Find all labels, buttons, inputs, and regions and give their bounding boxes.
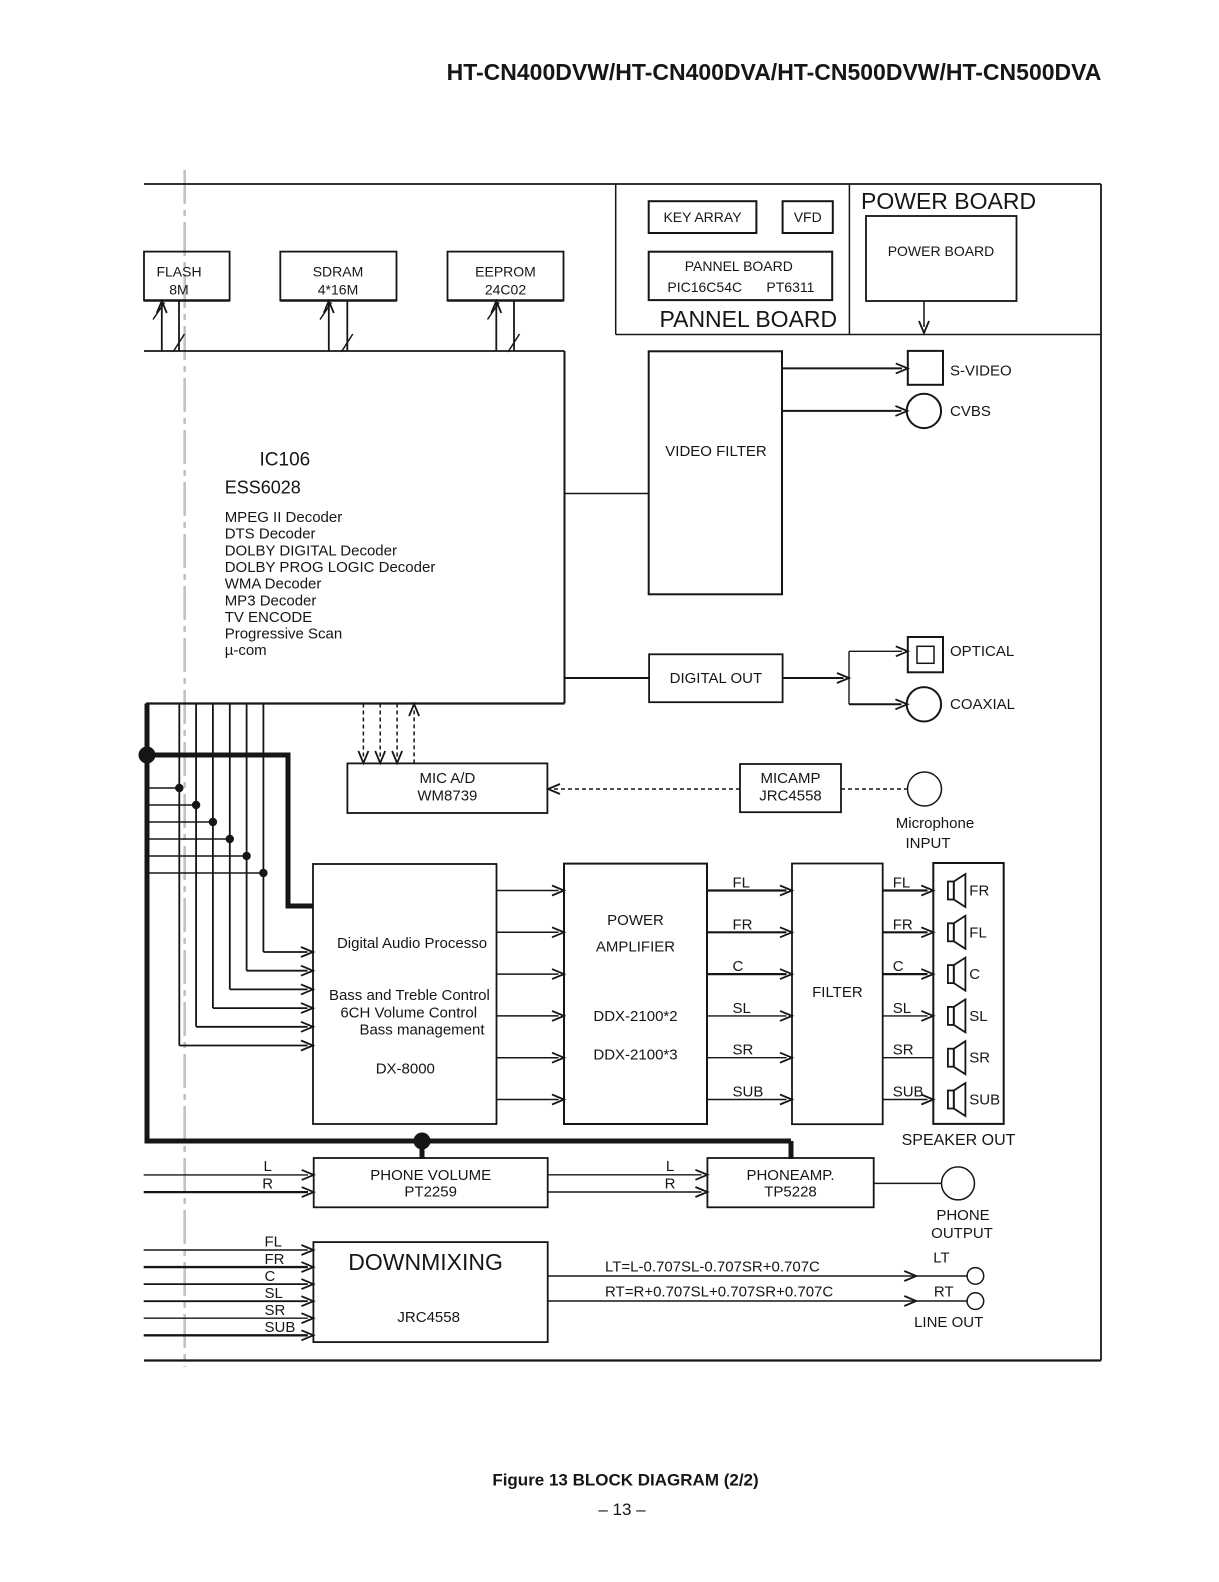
wire IC106 to digital out <box>565 677 650 679</box>
svg-text:VFD: VFD <box>794 209 822 225</box>
svg-text:PT6311: PT6311 <box>766 279 814 295</box>
svg-text:DDX-2100*2: DDX-2100*2 <box>593 1008 677 1025</box>
svg-text:FR: FR <box>733 916 753 933</box>
svg-text:8M: 8M <box>169 282 188 298</box>
svg-text:SDRAM: SDRAM <box>313 264 364 280</box>
LT connector <box>967 1268 984 1285</box>
svg-text:FR: FR <box>969 883 989 900</box>
video filter block <box>649 351 782 594</box>
svg-text:L: L <box>666 1158 674 1175</box>
node bus junction top <box>139 747 156 764</box>
svg-text:Progressive Scan: Progressive Scan <box>225 626 343 643</box>
svg-text:WM8739: WM8739 <box>417 788 477 805</box>
svg-text:POWER BOARD: POWER BOARD <box>861 188 1036 214</box>
wire power amp to filter SR <box>707 1057 787 1059</box>
node channel 3 junction <box>209 818 217 826</box>
wire power amp to filter FR <box>707 931 787 933</box>
svg-text:FL: FL <box>733 875 751 892</box>
frame bottom border <box>144 1359 1101 1361</box>
wire EEPROM bus up arrow <box>495 303 497 351</box>
svg-text:MP3 Decoder: MP3 Decoder <box>225 592 317 609</box>
COAXIAL connector <box>907 687 941 721</box>
wire R into phone volume <box>144 1191 308 1193</box>
power amplifier DDX-2100 block <box>564 864 707 1124</box>
digital audio processor DX-8000 block <box>313 864 497 1124</box>
wire stub to channel 4 <box>145 838 230 840</box>
wire RT line out <box>548 1300 967 1302</box>
wire C into downmixing <box>144 1283 308 1285</box>
wire audio channel 1 from IC106 to DAP <box>178 704 180 1046</box>
wire stub to channel 6 <box>145 872 263 874</box>
wire DAP to power amp 1 <box>497 890 559 892</box>
svg-text:DX-8000: DX-8000 <box>376 1061 435 1078</box>
svg-text:TV ENCODE: TV ENCODE <box>225 609 313 626</box>
svg-text:CVBS: CVBS <box>950 403 991 420</box>
IC106 ESS6028 decoder block <box>144 350 565 352</box>
wire dashed IC106 to MIC A/D 1 <box>362 704 364 758</box>
wire stub to channel 5 <box>145 855 247 857</box>
fold mark dash-dot line <box>183 170 186 1367</box>
svg-text:SR: SR <box>969 1050 990 1067</box>
wire SDRAM bus up arrow <box>328 303 330 351</box>
svg-text:SL: SL <box>893 1000 911 1017</box>
wire DAP to power amp 2 <box>497 931 559 933</box>
wire FLASH bus down <box>178 301 180 352</box>
speaker out block <box>933 863 1003 1124</box>
svg-text:SUB: SUB <box>733 1084 764 1101</box>
node bus junction phone volume <box>414 1133 431 1150</box>
wire DAP to power amp 4 <box>497 1015 559 1017</box>
svg-text:PHONE: PHONE <box>936 1207 989 1224</box>
svg-text:FR: FR <box>265 1251 285 1268</box>
RT connector <box>967 1293 984 1310</box>
svg-text:OPTICAL: OPTICAL <box>950 643 1014 660</box>
svg-text:– 13 –: – 13 – <box>598 1500 646 1519</box>
svg-text:COAXIAL: COAXIAL <box>950 696 1015 713</box>
wire audio channel 2 from IC106 to DAP <box>195 704 197 1027</box>
wire SL into downmixing <box>144 1300 308 1302</box>
thick bus vertical <box>145 704 150 1142</box>
wire stub to channel 1 <box>145 787 179 789</box>
wire DAP to power amp 6 <box>497 1099 559 1101</box>
svg-text:MICAMP: MICAMP <box>761 770 821 787</box>
svg-text:PHONE VOLUME: PHONE VOLUME <box>370 1167 491 1184</box>
svg-text:S-VIDEO: S-VIDEO <box>950 362 1012 379</box>
frame right border <box>1100 184 1102 1361</box>
svg-text:PT2259: PT2259 <box>404 1184 457 1201</box>
svg-text:SL: SL <box>265 1285 283 1302</box>
svg-text:SUB: SUB <box>265 1319 296 1336</box>
svg-text:IC106: IC106 <box>260 450 311 471</box>
svg-text:Figure 13 BLOCK DIAGRAM (2/2): Figure 13 BLOCK DIAGRAM (2/2) <box>492 1471 758 1490</box>
frame top border <box>144 183 1101 185</box>
wire dashed IC106 to MIC A/D 3 <box>396 704 398 758</box>
svg-text:6CH Volume Control: 6CH Volume Control <box>340 1005 477 1022</box>
svg-text:PANNEL BOARD: PANNEL BOARD <box>659 306 837 332</box>
wire dashed IC106 to MIC A/D 2 <box>379 704 381 758</box>
svg-text:PHONEAMP.: PHONEAMP. <box>746 1167 834 1184</box>
speaker icon SR <box>948 1041 966 1074</box>
svg-text:C: C <box>733 958 744 975</box>
speaker icon SUB <box>948 1083 966 1116</box>
svg-text:Microphone: Microphone <box>896 815 974 832</box>
wire filter to speaker SUB <box>883 1099 928 1101</box>
CVBS connector <box>907 394 941 428</box>
svg-text:JRC4558: JRC4558 <box>759 788 822 805</box>
node channel 5 junction <box>242 852 250 860</box>
wire DAP to power amp 3 <box>497 973 559 975</box>
node channel 6 junction <box>259 869 267 877</box>
svg-text:AMPLIFIER: AMPLIFIER <box>596 939 675 956</box>
svg-text:JRC4558: JRC4558 <box>397 1309 460 1326</box>
wire coaxial arrow <box>849 703 902 705</box>
svg-text:HT-CN400DVW/HT-CN400DVA/HT-CN5: HT-CN400DVW/HT-CN400DVA/HT-CN500DVW/HT-C… <box>447 59 1102 85</box>
svg-text:SUB: SUB <box>969 1092 1000 1109</box>
svg-text:WMA Decoder: WMA Decoder <box>225 576 322 593</box>
wire EEPROM bus down <box>513 301 515 352</box>
svg-text:POWER: POWER <box>607 912 664 929</box>
wire FL into downmixing <box>144 1249 308 1251</box>
svg-text:KEY ARRAY: KEY ARRAY <box>663 209 742 225</box>
wire power amp to filter SL <box>707 1015 787 1017</box>
speaker icon FR <box>948 874 966 907</box>
wire digital out split <box>848 651 850 704</box>
wire filter to speaker SL <box>883 1015 928 1017</box>
svg-text:DIGITAL OUT: DIGITAL OUT <box>670 670 763 687</box>
wire bus drop to phoneamp <box>789 1141 794 1159</box>
svg-text:PANNEL BOARD: PANNEL BOARD <box>685 258 793 274</box>
wire optical arrow <box>849 650 902 652</box>
svg-text:24C02: 24C02 <box>485 282 526 298</box>
filter block <box>792 864 883 1125</box>
memory FLASH 8M <box>144 252 230 301</box>
svg-text:INPUT: INPUT <box>906 835 951 852</box>
wire DAP to power amp 5 <box>497 1057 559 1059</box>
wire R phone volume to phoneamp <box>548 1191 702 1193</box>
wire power amp to filter SUB <box>707 1099 787 1101</box>
svg-text:SL: SL <box>733 1000 751 1017</box>
wire audio channel 4 from IC106 to DAP <box>229 704 231 990</box>
svg-text:OUTPUT: OUTPUT <box>931 1225 993 1242</box>
svg-text:LT: LT <box>933 1250 949 1267</box>
svg-text:R: R <box>665 1176 676 1193</box>
digital out block <box>649 654 783 702</box>
svg-text:SL: SL <box>969 1008 987 1025</box>
phone volume PT2259 block <box>314 1158 548 1207</box>
phoneamp TP5228 block <box>707 1158 873 1207</box>
svg-text:Digital Audio Processo: Digital Audio Processo <box>337 935 487 952</box>
wire bus stub to phone volume <box>420 1141 425 1159</box>
node channel 1 junction <box>175 784 183 792</box>
svg-text:FL: FL <box>893 875 911 892</box>
wire stub to channel 3 <box>145 821 213 823</box>
wire CVBS arrow <box>782 410 902 412</box>
svg-text:SR: SR <box>265 1302 286 1319</box>
svg-text:TP5228: TP5228 <box>764 1184 817 1201</box>
svg-text:RT=R+0.707SL+0.707SR+0.707C: RT=R+0.707SL+0.707SR+0.707C <box>605 1284 833 1301</box>
svg-text:DOLBY PROG LOGIC Decoder: DOLBY PROG LOGIC Decoder <box>225 559 436 576</box>
svg-text:SPEAKER OUT: SPEAKER OUT <box>902 1132 1016 1149</box>
svg-text:POWER BOARD: POWER BOARD <box>888 243 995 259</box>
svg-text:FLASH: FLASH <box>156 264 201 280</box>
VFD block <box>783 201 833 233</box>
wire L phone volume to phoneamp <box>548 1174 702 1176</box>
wire audio channel 5 from IC106 to DAP <box>246 704 248 971</box>
wire dashed MICAMP to MIC A/D <box>554 788 740 790</box>
svg-text:DDX-2100*3: DDX-2100*3 <box>593 1047 677 1064</box>
phone output connector <box>942 1167 975 1200</box>
svg-text:PIC16C54C: PIC16C54C <box>667 279 742 295</box>
downmixing JRC4558 block <box>313 1242 547 1342</box>
wire power amp to filter FL <box>707 889 787 891</box>
S-VIDEO connector <box>908 351 943 385</box>
wire SR into downmixing <box>144 1317 308 1319</box>
speaker icon SL <box>948 999 966 1032</box>
svg-text:SR: SR <box>733 1042 754 1059</box>
svg-text:4*16M: 4*16M <box>318 282 358 298</box>
wire digital out arrow <box>783 677 844 679</box>
svg-text:FL: FL <box>265 1234 283 1251</box>
svg-text:SR: SR <box>893 1042 914 1059</box>
wire SDRAM bus down <box>346 301 348 352</box>
memory SDRAM 4*16M <box>280 252 396 301</box>
svg-text:Bass and Treble Control: Bass and Treble Control <box>329 987 490 1004</box>
wire filter to speaker FR <box>883 931 928 933</box>
svg-text:C: C <box>969 966 980 983</box>
wire filter to speaker FL <box>883 889 928 891</box>
key array block <box>649 201 757 233</box>
wire dashed MIC A/D to IC106 up arrow <box>413 710 415 763</box>
svg-text:EEPROM: EEPROM <box>475 264 536 280</box>
speaker icon C <box>948 958 966 991</box>
svg-text:L: L <box>264 1158 272 1175</box>
MICAMP JRC4558 block <box>740 764 841 812</box>
memory EEPROM 24C02 <box>448 252 564 301</box>
thick bus horizontal <box>145 1139 792 1144</box>
wire power board down arrow <box>923 301 925 327</box>
wire phoneamp to phone output <box>874 1182 942 1184</box>
svg-text:MPEG II Decoder: MPEG II Decoder <box>225 509 343 526</box>
wire audio channel 3 from IC106 to DAP <box>212 704 214 1009</box>
pannel board section box <box>615 184 617 335</box>
svg-text:MIC A/D: MIC A/D <box>419 770 475 787</box>
wire S-VIDEO arrow <box>782 367 902 369</box>
svg-text:RT: RT <box>934 1284 954 1301</box>
microphone input connector <box>908 772 942 806</box>
wire filter to speaker SR <box>883 1057 934 1059</box>
wire stub to channel 2 <box>145 804 196 806</box>
svg-text:DOLBY DIGITAL Decoder: DOLBY DIGITAL Decoder <box>225 542 397 559</box>
svg-text:FL: FL <box>969 924 987 941</box>
wire SUB into downmixing <box>144 1334 308 1336</box>
svg-text:FR: FR <box>893 916 913 933</box>
wire power amp to filter C <box>707 973 787 975</box>
svg-text:DTS Decoder: DTS Decoder <box>225 526 316 543</box>
svg-text:LT=L-0.707SL-0.707SR+0.707C: LT=L-0.707SL-0.707SR+0.707C <box>605 1259 820 1276</box>
node channel 4 junction <box>226 835 234 843</box>
svg-text:C: C <box>893 958 904 975</box>
node channel 2 junction <box>192 801 200 809</box>
wire audio channel 6 from IC106 to DAP <box>262 704 264 953</box>
svg-text:FILTER: FILTER <box>812 984 863 1001</box>
svg-text:C: C <box>265 1268 276 1285</box>
svg-text:LINE OUT: LINE OUT <box>914 1314 983 1331</box>
speaker icon FL <box>948 916 966 949</box>
OPTICAL connector <box>908 637 943 672</box>
power board block <box>866 216 1017 301</box>
svg-text:R: R <box>262 1176 273 1193</box>
wire L into phone volume <box>144 1174 308 1176</box>
svg-text:SUB: SUB <box>893 1084 924 1101</box>
svg-text:µ-com: µ-com <box>225 642 267 659</box>
wire FLASH bus up arrow <box>161 303 163 351</box>
pannel board inner block PIC16C54C PT6311 <box>649 252 833 300</box>
wire FR into downmixing <box>144 1266 308 1268</box>
wire dashed microphone to MICAMP <box>841 788 907 790</box>
MIC A/D WM8739 block <box>347 763 547 813</box>
wire LT line out <box>548 1275 967 1277</box>
svg-text:ESS6028: ESS6028 <box>225 477 301 497</box>
wire filter to speaker C <box>883 973 928 975</box>
svg-text:VIDEO FILTER: VIDEO FILTER <box>665 443 767 460</box>
wire IC106 to video filter <box>565 493 649 495</box>
svg-text:Bass management: Bass management <box>359 1022 485 1039</box>
svg-text:DOWNMIXING: DOWNMIXING <box>348 1249 503 1275</box>
wire thick bus branch to DAP <box>147 755 313 906</box>
